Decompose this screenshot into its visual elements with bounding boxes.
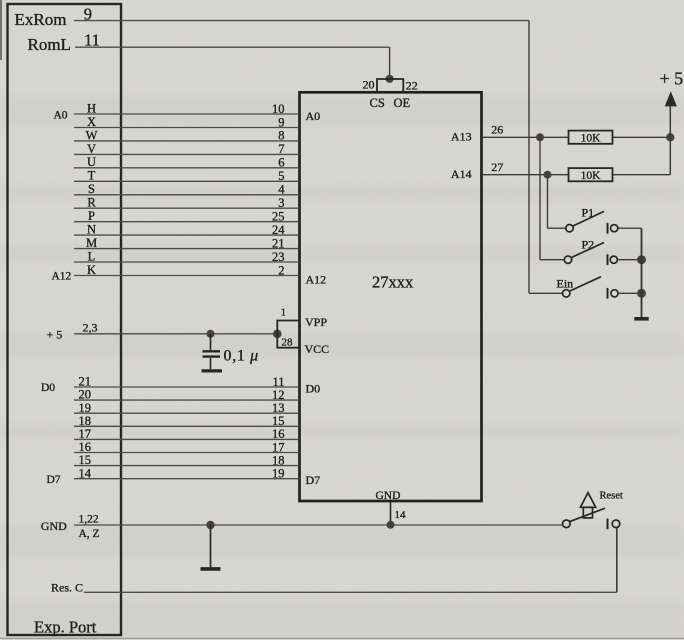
ground symbol bar (GND net) <box>201 567 221 571</box>
capacitor C1 top lead <box>210 334 212 350</box>
resistor R2 10K <box>569 168 613 181</box>
wire P2 contact to ground rail <box>618 259 642 261</box>
wire address row T (port T to EPROM pin 5) <box>74 180 300 182</box>
switch P2 right contact bar <box>607 254 609 265</box>
wire data row port 18 to EPROM pin 15 <box>74 425 300 427</box>
junction dot on +5 rail <box>666 133 674 141</box>
wire EPROM pin 14 to GND <box>390 501 392 525</box>
power +5 arrow symbol <box>665 91 677 106</box>
ground symbol stem (GND net) <box>210 525 212 567</box>
junction dot A13 node <box>536 133 544 141</box>
junction dot GND at pin 14 <box>387 521 395 529</box>
junction dot at VPP/VCC bracket <box>273 330 282 339</box>
scan left edge artifact <box>0 0 2 60</box>
wire P1 contact to ground rail <box>618 227 641 229</box>
pushbutton Reset left contact <box>563 520 571 528</box>
wire address row P (port P to EPROM pin 25) <box>74 221 300 223</box>
wire data row port 16 to EPROM pin 17 <box>74 452 300 454</box>
wire address row L (port L to EPROM pin 23) <box>74 261 300 263</box>
wire +5 rail vertical <box>669 105 671 175</box>
switch P1 right contact bar <box>607 223 609 234</box>
ground symbol (capacitor C1) <box>202 369 223 372</box>
pushbutton Reset plunger <box>583 507 592 518</box>
wire data row port 21 to EPROM pin 11 <box>74 386 300 388</box>
connector J1 Exp. Port box <box>8 4 122 635</box>
wire A14 node down to switch P1 <box>547 175 549 229</box>
switch P1 left contact <box>566 225 573 232</box>
wire RomL vertical drop to CS/OE junction <box>389 47 391 78</box>
pushbutton Reset right contact bar <box>607 519 609 530</box>
wire CS-OE tie bracket (pins 20 and 22) <box>377 79 403 92</box>
wire address row R (port R to EPROM pin 3) <box>74 207 300 209</box>
wire address row K (port K to EPROM pin 2) <box>74 275 300 277</box>
capacitor C1 bottom lead <box>210 358 212 369</box>
EPROM U1 27xxx body <box>300 92 482 501</box>
switch P2 right contact circle <box>610 256 617 263</box>
switch Ein right contact circle <box>611 290 618 297</box>
ground symbol (switch rail) <box>634 317 648 321</box>
wire data row port 20 to EPROM pin 12 <box>74 399 300 401</box>
pushbutton Reset right contact circle <box>612 520 620 528</box>
wire RomL horizontal (port pin 11 toward CS/OE) <box>75 46 390 48</box>
wire address row M (port M to EPROM pin 21) <box>74 248 300 250</box>
capacitor C1 plate 1 <box>203 350 221 352</box>
switch P2 blade <box>572 243 604 258</box>
switch P1 right contact circle <box>611 225 618 232</box>
wire Reset contact down to Res.C line <box>616 528 618 593</box>
wire +5 from port to VPP/VCC <box>74 333 277 335</box>
switch Ein left contact <box>563 290 570 297</box>
switch P1 blade <box>573 211 604 226</box>
junction dot A14 node <box>544 171 552 179</box>
wire address row V (port V to EPROM pin 7) <box>74 153 300 155</box>
wire GND horizontal <box>74 524 562 526</box>
wire data row port 15 to EPROM pin 18 <box>74 465 300 467</box>
scan bottom edge line <box>0 637 684 639</box>
junction dot Ein on ground rail <box>637 289 646 298</box>
wire A13 pin 26 to +5 rail <box>482 136 671 138</box>
switch P2 left contact <box>564 256 571 263</box>
switch Ein blade <box>570 277 601 291</box>
wire data row port 19 to EPROM pin 13 <box>74 412 300 414</box>
wire ExRom vertical drop to Ein switch <box>528 21 530 294</box>
wire Res. C horizontal <box>84 591 617 593</box>
wire address row U (port U to EPROM pin 6) <box>74 167 300 169</box>
pushbutton Reset blade <box>570 508 605 521</box>
wire A14 pin 27 to +5 rail <box>482 174 671 176</box>
wire address row S (port S to EPROM pin 4) <box>74 194 300 196</box>
wire VPP/VCC tie bracket <box>277 321 299 348</box>
wire ExRom stub to Ein switch contact <box>529 292 562 294</box>
resistor R1 10K <box>569 131 613 144</box>
wire address row H (port H to EPROM pin 10) <box>74 113 300 115</box>
switch Ein right contact bar <box>607 288 609 299</box>
junction dot GND at ground stub <box>206 521 214 529</box>
wire data row port 17 to EPROM pin 16 <box>74 438 300 440</box>
junction dot CS/OE node <box>386 75 394 83</box>
wire data row port 14 to EPROM pin 19 <box>74 478 300 480</box>
wire ExRom horizontal (port pin 9 to right side) <box>74 20 529 22</box>
wire address row X (port X to EPROM pin 9) <box>74 127 300 129</box>
pushbutton Reset actuator triangle <box>580 493 595 508</box>
junction dot at capacitor C1 <box>207 330 215 338</box>
junction dot P2 on ground rail <box>637 255 646 264</box>
wire address row N (port N to EPROM pin 24) <box>74 234 300 236</box>
wire address row W (port W to EPROM pin 8) <box>74 140 300 142</box>
wire switch ground rail <box>641 228 643 318</box>
wire A13 node down to switch P2 <box>539 137 541 259</box>
wire Ein contact to ground rail <box>619 292 642 294</box>
capacitor C1 plate 2 <box>203 355 221 357</box>
